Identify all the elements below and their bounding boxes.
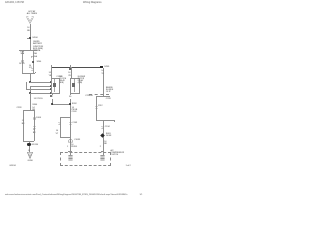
relay box R [70, 78, 80, 94]
left down wire labels [22, 120, 24, 122]
splice at bus right end [100, 66, 104, 69]
right down wire [34, 110, 35, 141]
rail D [30, 93, 51, 94]
coil under right entry [100, 155, 105, 161]
bus wire [51, 67, 103, 68]
rail B [30, 86, 51, 87]
label right of relay R [78, 77, 85, 84]
text above relay L [56, 76, 62, 78]
circle symbol on right down wire [33, 117, 36, 120]
label right internal wire [29, 65, 32, 70]
coil under left entry [68, 155, 73, 161]
relay box L [51, 78, 61, 94]
branch left from main wire [60, 117, 71, 118]
label left wire circles connector [21, 60, 24, 63]
compressor wires into dashed box [67, 146, 68, 148]
drop 2 from bus to relay R [71, 67, 72, 79]
stub tick below relay L [52, 93, 53, 95]
wire below staple [103, 120, 104, 151]
wire: arrow to BJB [30, 24, 31, 50]
bus tick mid [70, 65, 71, 68]
wire relay L to junction [52, 99, 53, 104]
right wire from splice down [103, 68, 104, 96]
wire relay R down, continues as main wire [70, 99, 71, 152]
filled diamond [100, 133, 105, 138]
wire labels right of main wire [72, 107, 78, 112]
entry ticks [68, 151, 71, 152]
right wire labels [101, 70, 103, 72]
left down wire [23, 110, 24, 141]
connector circle below join [68, 139, 73, 144]
wire into box right [103, 146, 104, 155]
tiny note below right of box [126, 165, 131, 167]
BJB label (right of wire) [33, 43, 43, 52]
wire label 14 [27, 27, 29, 29]
connector arcs on that wire [95, 106, 98, 109]
BJB top edge pin ticks [19, 50, 20, 52]
BJB exit stub down to rails [30, 73, 31, 82]
dashed segment [89, 94, 108, 95]
connector arcs on left branch [58, 122, 61, 125]
join bar [23, 141, 35, 142]
wire from rail D down [30, 93, 31, 110]
horizontal joining relay stubs [52, 104, 70, 105]
dot at rail D corner [29, 92, 31, 94]
wire down left of right column [96, 96, 97, 121]
label above power arrow [27, 11, 37, 16]
wire label below splice [33, 41, 39, 43]
footer url [5, 194, 127, 196]
connector arcs lower right wire [101, 126, 104, 129]
rail C [26, 89, 51, 90]
connector arcs on right internal wire [31, 68, 34, 71]
wire label BU [27, 30, 30, 32]
fuse label inside box [33, 50, 37, 55]
ground symbol [27, 152, 33, 159]
drop 1 from bus to relay L [51, 67, 52, 79]
dots at rail right ends [50, 81, 52, 83]
header left: date/time [5, 2, 24, 5]
junction dot left [51, 103, 53, 105]
junction dot right [69, 103, 71, 105]
wire to ground [29, 146, 30, 152]
bypass vertical for rail C [26, 82, 27, 89]
stub to ground stud [29, 141, 30, 144]
BJB box top edge [19, 50, 36, 51]
fuse symbol on right internal wire [31, 56, 34, 59]
ground stud blob [27, 143, 31, 146]
BJB internal right wire [33, 50, 34, 74]
footer page [140, 194, 143, 196]
join of branch and main [60, 137, 71, 138]
bus tick left end [51, 65, 52, 69]
tiny label right of BJB dot [37, 61, 42, 63]
vertical connecting B and D [30, 86, 31, 93]
corner split horizontal [23, 110, 34, 111]
BJB box bottom edge with up ticks [22, 73, 35, 74]
connector arcs on main wire [69, 122, 72, 125]
staple connector [96, 120, 114, 121]
power feed arrow (to fuse) [25, 16, 35, 25]
horizontal under dashed segment [96, 96, 110, 97]
right wire text block [106, 88, 113, 94]
junction dot rails [29, 81, 31, 83]
BJB internal left wire [22, 50, 23, 74]
connector arcs on right down wire [33, 126, 36, 129]
stray label left [9, 165, 15, 167]
A/C compressor dashed box [60, 152, 111, 167]
header center: title [83, 2, 101, 5]
rail A [30, 82, 51, 83]
splice S204 [29, 37, 31, 39]
stub tick below relay R [70, 93, 71, 95]
relay label between boxes [59, 77, 66, 84]
junction dot on right internal wire [32, 61, 34, 63]
connector label left of split corner [17, 107, 22, 109]
